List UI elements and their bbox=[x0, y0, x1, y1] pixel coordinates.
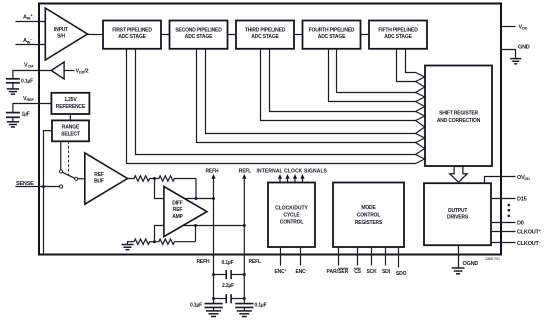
capacitor 0.1uF REFL to ground bbox=[235, 303, 266, 311]
svg-text:SECOND PIPELINED: SECOND PIPELINED bbox=[175, 27, 222, 33]
wire stage3-stage4 bbox=[294, 34, 303, 36]
block MODE CONTROL REGISTERS bbox=[333, 183, 404, 248]
bus stage3 to shift register bbox=[261, 49, 417, 121]
block FIFTH PIPELINED ADC STAGE bbox=[369, 21, 427, 49]
block RANGE SELECT bbox=[52, 120, 89, 141]
svg-text:INTERNAL CLOCK SIGNALS: INTERNAL CLOCK SIGNALS bbox=[257, 169, 328, 175]
wire reference to range select bbox=[69, 114, 71, 120]
pin D0 bbox=[491, 222, 516, 224]
block THIRD PIPELINED ADC STAGE bbox=[236, 21, 294, 49]
svg-text:ADC STAGE: ADC STAGE bbox=[118, 34, 146, 40]
block 1.25V REFERENCE bbox=[51, 93, 89, 114]
block FOURTH PIPELINED ADC STAGE bbox=[303, 21, 361, 49]
svg-text:2.2µF: 2.2µF bbox=[222, 283, 234, 289]
svg-text:FOURTH PIPELINED: FOURTH PIPELINED bbox=[309, 27, 355, 33]
resistor R bottom-right bbox=[155, 239, 196, 244]
resistor R top-left bbox=[128, 176, 155, 181]
capacitor 1uF on VREF bbox=[6, 112, 30, 122]
bus arrowheads into shift register bbox=[416, 73, 425, 164]
svg-text:CLKOUT+: CLKOUT+ bbox=[517, 228, 542, 236]
svg-text:CS: CS bbox=[354, 269, 361, 275]
svg-text:SHIFT REGISTER: SHIFT REGISTER bbox=[439, 111, 478, 117]
svg-text:CLKOUT–: CLKOUT– bbox=[517, 239, 542, 247]
node 2.2uF right bbox=[243, 297, 246, 300]
block CLOCK/DUTY CYCLE CONTROL bbox=[268, 183, 315, 248]
op-amp DIFF REF AMP bbox=[164, 187, 207, 237]
svg-text:OUTPUT: OUTPUT bbox=[448, 208, 468, 214]
bus stage4 to shift register bbox=[329, 49, 417, 102]
wire S/H to first stage bbox=[88, 34, 104, 36]
svg-text:RANGE: RANGE bbox=[62, 124, 80, 130]
svg-text:D15: D15 bbox=[517, 196, 527, 202]
arrow shift register to output drivers (hollow) bbox=[450, 167, 468, 183]
svg-text:AMP: AMP bbox=[172, 214, 183, 220]
svg-text:REFH: REFH bbox=[206, 169, 219, 175]
ground for REFH cap bbox=[206, 311, 221, 317]
node 2.2uF left bbox=[212, 297, 215, 300]
block SECOND PIPELINED ADC STAGE bbox=[170, 21, 228, 49]
pin CS bbox=[357, 247, 359, 266]
svg-text:ADC STAGE: ADC STAGE bbox=[251, 34, 279, 40]
capacitor 2.2uF REFH-REFL bridge bbox=[214, 294, 245, 303]
block OUTPUT DRIVERS bbox=[424, 183, 491, 245]
svg-text:OGND: OGND bbox=[463, 261, 479, 267]
svg-text:0.1µF: 0.1µF bbox=[21, 79, 33, 85]
pin PAR/SER bbox=[338, 247, 340, 266]
wire AIN+ input bbox=[16, 21, 46, 23]
pin SDI bbox=[385, 247, 387, 266]
svg-text:0.1µF: 0.1µF bbox=[255, 303, 267, 309]
svg-text:DRIVERS: DRIVERS bbox=[447, 215, 469, 221]
op-amp INPUT S/H bbox=[45, 8, 87, 60]
pin D15 bbox=[491, 198, 516, 200]
svg-text:D0: D0 bbox=[517, 220, 524, 226]
wire dashed switch control bbox=[68, 141, 70, 175]
dots between D15 and D0 bbox=[508, 204, 511, 217]
node B (between bottom resistors) bbox=[153, 240, 156, 243]
svg-text:REF: REF bbox=[173, 207, 183, 213]
chip outline border bbox=[39, 4, 501, 255]
ground for VREF cap bbox=[7, 122, 19, 127]
svg-text:VDD/2: VDD/2 bbox=[76, 69, 89, 75]
ground symbol OGND bbox=[452, 268, 465, 274]
svg-text:DIFF: DIFF bbox=[172, 201, 183, 207]
svg-text:REGISTERS: REGISTERS bbox=[355, 220, 383, 226]
ground for VCM cap bbox=[7, 89, 19, 94]
svg-text:SCK: SCK bbox=[367, 269, 378, 275]
node REFL tap bbox=[243, 224, 246, 227]
pin CLKOUT- bbox=[491, 242, 516, 244]
node top feedback bbox=[195, 197, 198, 200]
svg-text:MODE: MODE bbox=[361, 205, 376, 211]
svg-text:INPUT: INPUT bbox=[54, 27, 68, 33]
svg-text:ADC STAGE: ADC STAGE bbox=[185, 34, 213, 40]
resistor R top-right bbox=[155, 176, 197, 181]
switch throw contact (sense) bbox=[59, 185, 62, 188]
resistor R bottom-left bbox=[134, 239, 155, 244]
svg-text:REF: REF bbox=[94, 172, 104, 178]
node sense junction bbox=[42, 185, 45, 188]
svg-text:REFL: REFL bbox=[249, 259, 261, 265]
pin ENC+ bbox=[280, 247, 282, 266]
capacitor 0.1uF REFH to ground bbox=[190, 303, 223, 311]
node A (between top resistors) bbox=[153, 177, 156, 180]
pin GND bbox=[501, 50, 516, 59]
ground for REFL cap bbox=[237, 311, 252, 317]
op-amp REF BUF bbox=[85, 153, 128, 204]
bus stage5 to shift register bbox=[397, 49, 417, 82]
switch lever bbox=[62, 172, 75, 178]
svg-text:CLOCK/DUTY: CLOCK/DUTY bbox=[275, 206, 308, 212]
wire REFH rail with up-arrow bbox=[211, 174, 215, 304]
pin OGND bbox=[458, 245, 460, 267]
switch throw contact (from range select) bbox=[59, 170, 62, 173]
wire VREF bbox=[13, 104, 52, 113]
node bridge cap right bbox=[243, 273, 246, 276]
svg-text:CONTROL: CONTROL bbox=[280, 220, 304, 226]
svg-text:FIFTH PIPELINED: FIFTH PIPELINED bbox=[378, 27, 418, 33]
svg-text:REFH: REFH bbox=[197, 259, 210, 265]
pin VDD bbox=[501, 26, 516, 28]
svg-text:1µF: 1µF bbox=[22, 112, 30, 118]
svg-text:BUF: BUF bbox=[94, 179, 104, 185]
bus stage1 to shift register bbox=[127, 49, 417, 164]
svg-text:FIRST PIPELINED: FIRST PIPELINED bbox=[112, 27, 152, 33]
svg-text:ADC STAGE: ADC STAGE bbox=[318, 34, 346, 40]
block FIRST PIPELINED ADC STAGE bbox=[103, 21, 161, 49]
svg-text:VCM: VCM bbox=[24, 63, 33, 69]
node lower feedback bbox=[194, 224, 197, 227]
ground symbol GND bbox=[510, 59, 521, 64]
svg-text:ADC STAGE: ADC STAGE bbox=[384, 34, 412, 40]
svg-text:THIRD PIPELINED: THIRD PIPELINED bbox=[245, 27, 286, 33]
svg-text:22851 F01: 22851 F01 bbox=[485, 257, 500, 261]
svg-text:SELECT: SELECT bbox=[61, 131, 80, 137]
wire stage4-stage5 bbox=[361, 34, 370, 36]
svg-text:REFL: REFL bbox=[239, 169, 251, 175]
svg-text:PAR/SER: PAR/SER bbox=[327, 269, 349, 275]
pin CLKOUT+ bbox=[491, 231, 516, 233]
node REFH tap bbox=[212, 197, 215, 200]
svg-text:1.25V: 1.25V bbox=[64, 97, 77, 103]
buffer VDD/2 (points left) bbox=[51, 62, 88, 79]
svg-text:REFERENCE: REFERENCE bbox=[56, 104, 86, 110]
node bridge cap left bbox=[212, 273, 215, 276]
svg-text:VDD: VDD bbox=[519, 24, 528, 30]
wire top feedback down bbox=[195, 179, 197, 199]
bus stage2 to shift register bbox=[197, 49, 417, 143]
pin OVDD bbox=[485, 177, 516, 184]
pin SDO bbox=[398, 247, 400, 268]
svg-text:CONTROL: CONTROL bbox=[357, 213, 381, 219]
svg-text:OVDD: OVDD bbox=[517, 175, 530, 181]
wire stage2-stage3 bbox=[228, 34, 237, 36]
wire amp upper output to REFH bbox=[184, 198, 214, 200]
svg-text:SDI: SDI bbox=[382, 269, 391, 275]
wire node B to amp lower input bbox=[155, 226, 164, 242]
svg-text:CYCLE: CYCLE bbox=[283, 213, 300, 219]
wire range select to switch throw bbox=[60, 141, 62, 169]
pin ENC- bbox=[300, 247, 302, 266]
wire stage1-stage2 bbox=[161, 34, 170, 36]
ground for bottom divider bbox=[122, 242, 135, 250]
svg-text:AND CORRECTION: AND CORRECTION bbox=[437, 118, 481, 124]
internal clock up-arrows bbox=[278, 174, 305, 183]
svg-text:SDO: SDO bbox=[396, 271, 407, 277]
switch common contact bbox=[75, 177, 78, 180]
wire amp lower output to REFL bbox=[184, 225, 244, 227]
wire range select left to sense rail bbox=[44, 131, 53, 255]
wire SENSE input bbox=[15, 186, 59, 188]
wire VCM bbox=[13, 71, 51, 79]
wire REFL rail with up-arrow bbox=[242, 174, 246, 304]
svg-text:0.1µF: 0.1µF bbox=[190, 303, 202, 309]
wire lower feedback up bbox=[195, 226, 197, 242]
pin SCK bbox=[371, 247, 373, 266]
wire node A to amp input bbox=[155, 179, 164, 199]
svg-text:S/H: S/H bbox=[57, 34, 65, 40]
block SHIFT REGISTER AND CORRECTION bbox=[425, 66, 492, 167]
capacitor 0.1uF on VCM bbox=[6, 79, 33, 89]
svg-text:GND: GND bbox=[518, 45, 530, 51]
svg-text:0.1µF: 0.1µF bbox=[222, 260, 234, 266]
svg-text:VREF: VREF bbox=[23, 96, 34, 102]
wire AIN- input bbox=[16, 44, 46, 46]
capacitor 0.1uF REFH-REFL bridge bbox=[214, 270, 245, 279]
wire switch to REF BUF bbox=[78, 178, 85, 180]
